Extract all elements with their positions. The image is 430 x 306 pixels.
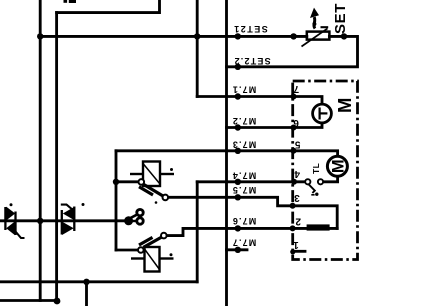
svg-text:M7.2: M7.2 xyxy=(232,116,256,126)
svg-text:M7.1: M7.1 xyxy=(232,85,256,95)
svg-text:M7.6: M7.6 xyxy=(232,216,256,226)
svg-text:M7.4: M7.4 xyxy=(232,170,256,180)
svg-text:TL: TL xyxy=(311,163,321,174)
svg-text:SET: SET xyxy=(332,3,349,34)
svg-text:M7.3: M7.3 xyxy=(232,139,256,149)
svg-text:SET2.2: SET2.2 xyxy=(233,56,270,66)
svg-text:5: 5 xyxy=(294,138,300,149)
svg-text:M7.7: M7.7 xyxy=(232,237,256,247)
svg-text:3: 3 xyxy=(294,192,300,203)
svg-text:1: 1 xyxy=(293,239,299,250)
svg-text:SET21: SET21 xyxy=(233,24,268,34)
svg-text:M: M xyxy=(330,159,348,173)
svg-text:6: 6 xyxy=(293,117,299,128)
svg-text:7: 7 xyxy=(293,83,299,94)
svg-text:2: 2 xyxy=(295,215,301,226)
svg-text:M: M xyxy=(334,98,355,113)
svg-text:M7.5: M7.5 xyxy=(232,185,256,195)
svg-text:4: 4 xyxy=(294,168,300,179)
